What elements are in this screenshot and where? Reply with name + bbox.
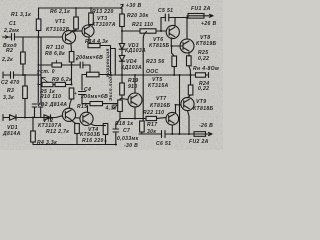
resistor R12 [75, 124, 80, 134]
svg-text:ООС: ООС [146, 69, 159, 75]
wire VT1 collector to VT3 base [71, 30, 82, 33]
wire bias column to R17 [143, 32, 146, 122]
svg-text:КТ819Б: КТ819Б [196, 41, 217, 47]
svg-text:R3: R3 [7, 88, 14, 94]
resistor R1 [36, 19, 41, 31]
wire VT5 emitter [134, 107, 136, 119]
trimmer R5 [42, 82, 53, 86]
wire R16 [91, 124, 106, 145]
svg-text:КТ3102Б: КТ3102Б [46, 27, 70, 33]
wire R18 top [120, 98, 122, 119]
diode VD1 [3, 115, 25, 121]
wire VD4 to feedback row [121, 61, 123, 75]
wire VT8 collector [186, 18, 188, 40]
transistor VT6 [166, 25, 179, 38]
transistor VT4 [80, 112, 93, 125]
svg-text:С2 470: С2 470 [1, 80, 20, 86]
resistor R14 [88, 44, 100, 48]
resistor R17 [140, 121, 145, 132]
svg-text:С1: С1 [9, 21, 16, 27]
wire output feedback row [111, 74, 191, 76]
svg-text:Д814А: Д814А [2, 131, 21, 137]
svg-text:КТ818Б: КТ818Б [193, 106, 214, 112]
svg-text:R15: R15 [77, 104, 87, 110]
wire minus rail bottom [139, 133, 194, 135]
junction node VT5-row [134, 74, 136, 76]
svg-text:R12 2,7к: R12 2,7к [46, 129, 69, 135]
wire VD1 row to VT2 base [25, 116, 63, 118]
wire set-zero row [38, 65, 90, 72]
junction node VT7 rail [171, 133, 173, 135]
wire R13 [89, 8, 91, 26]
svg-text:+: + [74, 91, 77, 96]
diode VD2 [44, 115, 51, 120]
svg-text:С4: С4 [84, 87, 91, 93]
svg-text:R10 110: R10 110 [40, 94, 61, 100]
junction node R16 ground [105, 140, 107, 142]
wire VT1 emitter to R8 [70, 43, 73, 51]
svg-text:VT9: VT9 [196, 99, 206, 105]
svg-text:4,3к: 4,3к [105, 106, 117, 112]
junction node R4 top [32, 117, 34, 119]
junction node R8-R9 [71, 84, 73, 86]
svg-text:R1 3,1к: R1 3,1к [11, 12, 31, 18]
junction node fuse tap [186, 17, 188, 19]
node input arrow [5, 36, 8, 39]
fuse FU2 [194, 132, 206, 137]
resistor R16 [103, 124, 108, 135]
diode VD4 [119, 49, 124, 61]
svg-text:-26 В: -26 В [199, 123, 213, 129]
svg-text:200мк×6В: 200мк×6В [75, 55, 103, 61]
svg-text:VD2 Д814А: VD2 Д814А [37, 102, 67, 108]
wire screened pair right [40, 37, 42, 102]
resistor R4 [31, 131, 36, 142]
svg-text:R14 4,3к: R14 4,3к [85, 39, 108, 45]
resistor R25 [187, 56, 192, 66]
resistor R6 [74, 17, 79, 29]
resistor R24 [188, 85, 193, 95]
svg-text:КТ3107А: КТ3107А [92, 22, 116, 28]
junction node rail-R20 [120, 7, 122, 9]
junction node VT9 rail [188, 133, 190, 135]
svg-text:С7: С7 [123, 128, 131, 134]
svg-text:КТ315А: КТ315А [148, 83, 169, 89]
wire screened pair left [37, 37, 39, 102]
svg-text:КТ816Б: КТ816Б [150, 103, 171, 109]
junction node output [189, 74, 191, 76]
resistor R13 [89, 13, 94, 25]
svg-text:FU1 2А: FU1 2А [191, 6, 211, 12]
trimmer R11 [87, 72, 100, 77]
junction node R21 left [121, 30, 123, 32]
wire R10 to VT2 [69, 99, 71, 108]
resistor R8 [69, 52, 74, 63]
junction node C5 base tap [160, 30, 162, 32]
load Rn [196, 73, 206, 77]
svg-text:910: 910 [128, 84, 138, 90]
wire VT1 base [39, 36, 63, 38]
junction node input-R1 [38, 36, 40, 38]
svg-text:R17: R17 [147, 122, 158, 128]
wire R24 [188, 75, 191, 98]
wire VT4 collector [87, 106, 89, 113]
transistor VT8 [180, 39, 194, 53]
svg-text:0,033мк: 0,033мк [117, 136, 139, 142]
wire VT5 collector [134, 75, 136, 93]
wire correction second line [111, 49, 116, 76]
svg-text:VT7: VT7 [156, 96, 167, 102]
wire ground rail bottom left [33, 144, 117, 146]
svg-text:R6 2,1к: R6 2,1к [50, 9, 70, 15]
junction node VT8 base [171, 45, 173, 47]
wire R15 row [82, 103, 118, 105]
svg-text:КТ815Б: КТ815Б [149, 43, 170, 49]
junction node VT5-R22 [134, 118, 136, 120]
capacitor C6 [162, 131, 169, 138]
wire input to C1 [3, 36, 39, 38]
wire R11 row [82, 74, 111, 76]
wire R19 [121, 75, 123, 98]
wire R4 [32, 118, 34, 145]
svg-text:R13 220: R13 220 [92, 9, 114, 15]
capacitor C7 [113, 119, 120, 145]
wire R2 vertical [22, 37, 24, 75]
svg-text:R8 6,8к: R8 6,8к [45, 51, 65, 57]
wire R12 [71, 120, 77, 144]
diode VD3 [119, 31, 124, 49]
wire VT3 emitter down [88, 37, 90, 44]
resistor R10 [69, 88, 74, 99]
junction node R3 top [24, 74, 26, 76]
wire VT7 collector column [176, 75, 180, 134]
svg-text:+26 В: +26 В [201, 21, 216, 27]
junction node VD1-R3 [24, 117, 26, 119]
wire R6 top [71, 8, 76, 31]
svg-text:R21 110: R21 110 [132, 22, 153, 28]
wire R17 bottom [141, 132, 143, 134]
resistor R23 [172, 56, 177, 67]
fuse FU1 [188, 14, 204, 19]
wire R14 to correction node [100, 46, 111, 76]
svg-text:Rн 4-8Ом: Rн 4-8Ом [193, 66, 219, 72]
capacitor C5 [165, 14, 169, 21]
resistor R21 [140, 29, 156, 33]
wire VT6 emitter to VT8 base [171, 38, 183, 46]
svg-text:Эксп.подб.: Эксп.подб. [107, 72, 114, 101]
wire R9 to R10 node [66, 84, 72, 86]
svg-text:3,3к: 3,3к [3, 95, 14, 101]
wire R8 bottom [71, 62, 73, 85]
junction node R23 row [173, 74, 175, 76]
transistor VT2 [62, 108, 75, 121]
svg-text:R18 1к: R18 1к [115, 121, 133, 127]
wire C2 input row [3, 72, 41, 78]
wire VT5 base [121, 99, 128, 100]
svg-text:2,2к: 2,2к [1, 57, 13, 63]
svg-text:2,2мк: 2,2мк [3, 28, 19, 34]
svg-text:VT1: VT1 [55, 19, 65, 25]
trimmer R18 [118, 100, 123, 112]
trimmer set-zero R7 [52, 63, 62, 67]
junction node C7 ground [115, 144, 117, 146]
wire VT2-VT4 base link [76, 117, 80, 119]
wire VT9 emitter down [188, 111, 190, 134]
wire R5 row [38, 84, 55, 86]
wire VT9 base link [176, 104, 182, 106]
wire R21 row [122, 30, 166, 32]
resistor R20 [120, 14, 125, 27]
svg-text:КД103А: КД103А [121, 65, 142, 71]
svg-text:+30 В: +30 В [126, 3, 141, 9]
resistor R2 [21, 52, 26, 64]
svg-text:R23 56: R23 56 [146, 59, 165, 65]
resistor R15 [90, 102, 103, 106]
resistor R22 [146, 116, 157, 120]
svg-text:уст. 0: уст. 0 [36, 69, 55, 75]
junction node R5 left [37, 84, 39, 86]
capacitor C2 [11, 72, 14, 78]
wire R20 [121, 8, 123, 31]
svg-text:R2: R2 [6, 48, 13, 54]
svg-text:-30 В: -30 В [124, 143, 138, 149]
capacitor C4 [79, 75, 86, 104]
svg-text:С6 51: С6 51 [156, 141, 171, 147]
wire R25 [189, 53, 191, 75]
capacitor C8 screen left [32, 104, 37, 118]
wire VT7 emitter to rail [171, 125, 173, 134]
svg-text:R4 3,3к: R4 3,3к [37, 140, 57, 146]
transistor VT1 [62, 31, 75, 44]
svg-text:R20 30к: R20 30к [127, 13, 149, 19]
transistor VT7 [166, 112, 179, 125]
wire top supply rail +30V [39, 8, 123, 37]
wire R22 row [120, 117, 166, 120]
wire VT6 collector [174, 18, 176, 27]
transistor VT3 [82, 25, 94, 37]
svg-text:0,22: 0,22 [198, 56, 209, 62]
capacitor C3 [80, 62, 83, 68]
svg-text:FU2 2А: FU2 2А [189, 139, 209, 145]
svg-text:КД103А: КД103А [125, 48, 146, 54]
capacitor C1 [12, 34, 15, 41]
svg-text:30к: 30к [147, 129, 156, 135]
svg-text:R22 110: R22 110 [143, 110, 164, 116]
junction node C2-R2 [22, 74, 24, 76]
resistor R9 [55, 82, 66, 86]
transistor VT9 [181, 97, 194, 110]
svg-text:+: + [76, 57, 79, 62]
transistor VT5 [128, 93, 142, 107]
wire R3 branch [24, 75, 26, 118]
svg-text:R16 220: R16 220 [82, 138, 104, 144]
node +30V terminal arrow [121, 4, 124, 8]
svg-text:С5 51: С5 51 [158, 8, 173, 14]
resistor R3 [23, 86, 28, 99]
wire C5 row [161, 18, 187, 32]
svg-text:200мк×6В: 200мк×6В [80, 94, 108, 100]
junction node output row left [121, 74, 123, 76]
svg-text:0,22: 0,22 [198, 86, 209, 92]
svg-text:R9 6,2к: R9 6,2к [52, 77, 72, 83]
capacitor C9 screen right [38, 104, 43, 118]
wire R23 [172, 46, 175, 75]
resistor R19 [120, 83, 125, 95]
